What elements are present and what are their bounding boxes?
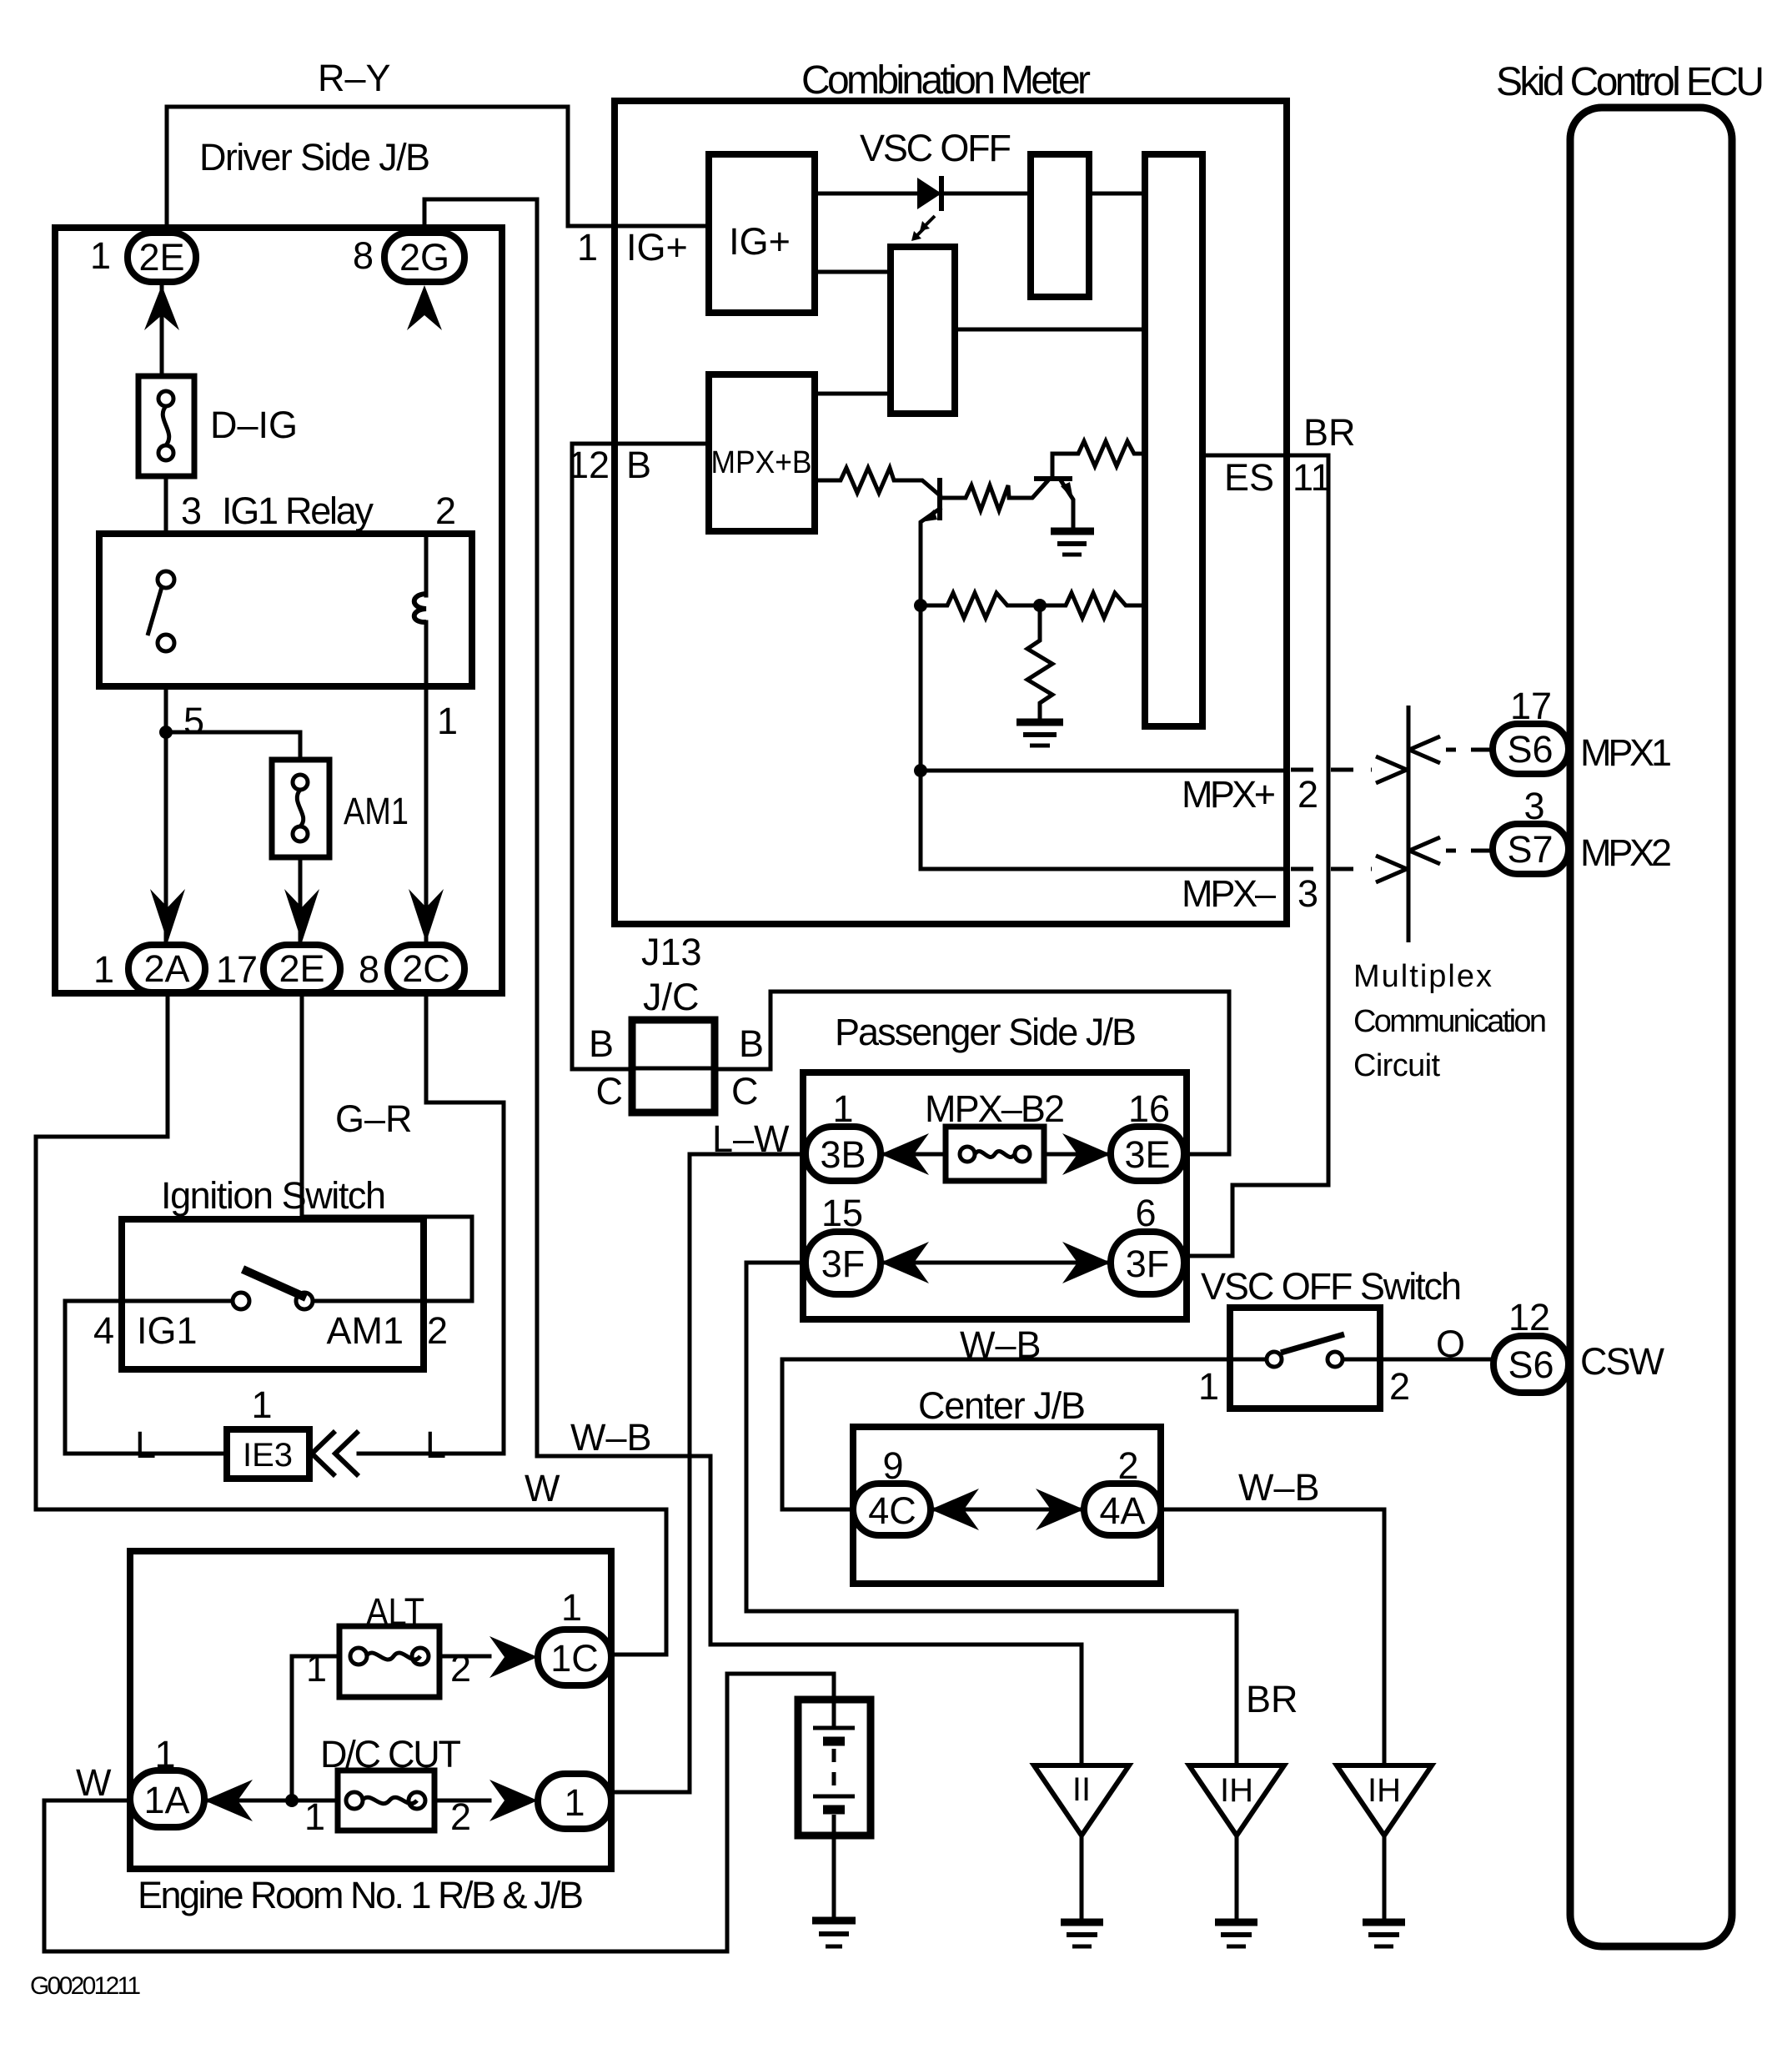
svg-text:L: L [425, 1424, 446, 1466]
svg-text:1: 1 [154, 1733, 175, 1775]
svg-text:4A: 4A [1099, 1489, 1145, 1532]
svg-text:5: 5 [183, 700, 204, 742]
svg-text:B: B [589, 1022, 614, 1065]
svg-text:D/C CUT: D/C CUT [320, 1733, 461, 1775]
svg-text:L–W: L–W [712, 1117, 790, 1160]
svg-text:D–IG: D–IG [210, 404, 298, 446]
svg-text:1: 1 [577, 226, 598, 269]
svg-text:MPX+: MPX+ [1182, 773, 1276, 816]
svg-text:3: 3 [1523, 785, 1544, 827]
svg-text:W: W [76, 1761, 112, 1804]
svg-text:4: 4 [93, 1309, 114, 1352]
svg-text:IH: IH [1220, 1772, 1253, 1809]
svg-text:2: 2 [450, 1795, 471, 1838]
svg-text:3: 3 [1298, 872, 1318, 915]
svg-text:L: L [135, 1424, 156, 1466]
svg-text:VSC OFF: VSC OFF [860, 127, 1011, 169]
svg-text:17: 17 [1510, 685, 1552, 727]
svg-text:II: II [1072, 1771, 1091, 1808]
svg-text:Driver Side J/B: Driver Side J/B [199, 136, 430, 178]
svg-text:W–B: W–B [1238, 1466, 1320, 1509]
svg-text:MPX1: MPX1 [1580, 731, 1672, 774]
svg-text:1: 1 [437, 700, 458, 742]
svg-text:1: 1 [564, 1781, 585, 1824]
svg-text:R–Y: R–Y [318, 57, 391, 99]
svg-text:MPX+B: MPX+B [711, 445, 812, 480]
svg-text:1: 1 [304, 1795, 325, 1838]
svg-text:VSC OFF Switch: VSC OFF Switch [1201, 1265, 1462, 1308]
svg-text:IG1: IG1 [137, 1309, 198, 1352]
svg-text:C: C [731, 1070, 759, 1112]
svg-text:Passenger Side J/B: Passenger Side J/B [835, 1011, 1137, 1053]
svg-text:Skid Control ECU: Skid Control ECU [1496, 60, 1764, 104]
svg-text:2G: 2G [399, 236, 449, 279]
svg-text:2: 2 [1117, 1444, 1138, 1487]
svg-text:S7: S7 [1507, 828, 1553, 871]
svg-text:8: 8 [359, 948, 379, 991]
svg-text:Communication: Communication [1353, 1004, 1547, 1039]
svg-text:Engine Room No. 1 R/B & J/B: Engine Room No. 1 R/B & J/B [138, 1874, 584, 1916]
svg-text:C: C [596, 1070, 624, 1112]
svg-text:B: B [739, 1022, 764, 1065]
svg-text:IE3: IE3 [243, 1437, 293, 1474]
svg-text:IG+: IG+ [626, 226, 688, 269]
svg-text:MPX–: MPX– [1182, 872, 1276, 915]
svg-text:2: 2 [450, 1647, 471, 1690]
svg-text:MPX2: MPX2 [1580, 831, 1672, 874]
svg-text:Combination Meter: Combination Meter [801, 58, 1091, 103]
svg-text:W–B: W–B [570, 1416, 652, 1459]
svg-text:AM1: AM1 [344, 790, 409, 832]
svg-text:3B: 3B [820, 1133, 866, 1176]
svg-text:1: 1 [306, 1647, 327, 1690]
svg-text:S6: S6 [1508, 1343, 1554, 1386]
svg-text:2: 2 [1389, 1365, 1410, 1408]
svg-text:1: 1 [561, 1586, 582, 1629]
svg-text:2: 2 [1298, 773, 1318, 816]
svg-text:12: 12 [568, 444, 610, 486]
svg-text:2E: 2E [279, 947, 324, 990]
svg-text:IG+: IG+ [729, 220, 791, 263]
svg-text:1: 1 [832, 1087, 853, 1130]
svg-text:2E: 2E [138, 236, 184, 279]
svg-text:J13: J13 [641, 931, 702, 973]
svg-text:B: B [626, 444, 651, 486]
svg-text:Circuit: Circuit [1353, 1048, 1440, 1083]
svg-text:8: 8 [353, 234, 374, 277]
svg-text:IG1 Relay: IG1 Relay [222, 490, 374, 532]
svg-text:17: 17 [216, 948, 258, 991]
svg-text:BR: BR [1303, 411, 1356, 454]
svg-text:3E: 3E [1124, 1133, 1170, 1176]
svg-text:3: 3 [181, 490, 202, 532]
svg-text:Center J/B: Center J/B [918, 1384, 1086, 1427]
svg-text:3F: 3F [821, 1243, 866, 1285]
svg-text:15: 15 [821, 1192, 863, 1234]
svg-text:S6: S6 [1507, 728, 1553, 771]
svg-text:2: 2 [427, 1309, 448, 1352]
svg-text:BR: BR [1246, 1678, 1298, 1720]
svg-text:Ignition Switch: Ignition Switch [161, 1174, 386, 1217]
svg-text:11: 11 [1293, 456, 1332, 499]
svg-text:J/C: J/C [643, 976, 700, 1018]
svg-text:1: 1 [90, 234, 111, 277]
svg-text:MPX–B2: MPX–B2 [925, 1087, 1065, 1130]
svg-text:1: 1 [93, 948, 114, 991]
svg-text:G–R: G–R [335, 1097, 413, 1140]
svg-text:9: 9 [882, 1444, 903, 1487]
svg-text:2: 2 [435, 490, 456, 532]
svg-text:3F: 3F [1126, 1243, 1170, 1285]
svg-text:16: 16 [1128, 1087, 1170, 1130]
svg-text:1: 1 [1198, 1365, 1219, 1408]
svg-text:12: 12 [1508, 1296, 1550, 1338]
svg-text:ALT: ALT [366, 1590, 424, 1633]
svg-text:1C: 1C [550, 1637, 599, 1680]
svg-text:G00201211: G00201211 [30, 1972, 141, 2000]
svg-text:AM1: AM1 [326, 1309, 404, 1352]
svg-text:O: O [1436, 1323, 1465, 1365]
svg-text:CSW: CSW [1580, 1340, 1665, 1383]
svg-text:2A: 2A [143, 947, 189, 990]
svg-text:ES: ES [1224, 456, 1274, 499]
svg-text:1A: 1A [143, 1779, 189, 1821]
svg-text:W–B: W–B [960, 1323, 1042, 1366]
svg-text:2C: 2C [402, 947, 450, 990]
svg-text:4C: 4C [868, 1489, 916, 1532]
svg-text:W: W [525, 1467, 560, 1509]
svg-text:6: 6 [1135, 1192, 1156, 1234]
svg-text:IH: IH [1368, 1772, 1401, 1809]
svg-text:Multiplex: Multiplex [1353, 959, 1492, 994]
svg-text:1: 1 [251, 1384, 272, 1426]
